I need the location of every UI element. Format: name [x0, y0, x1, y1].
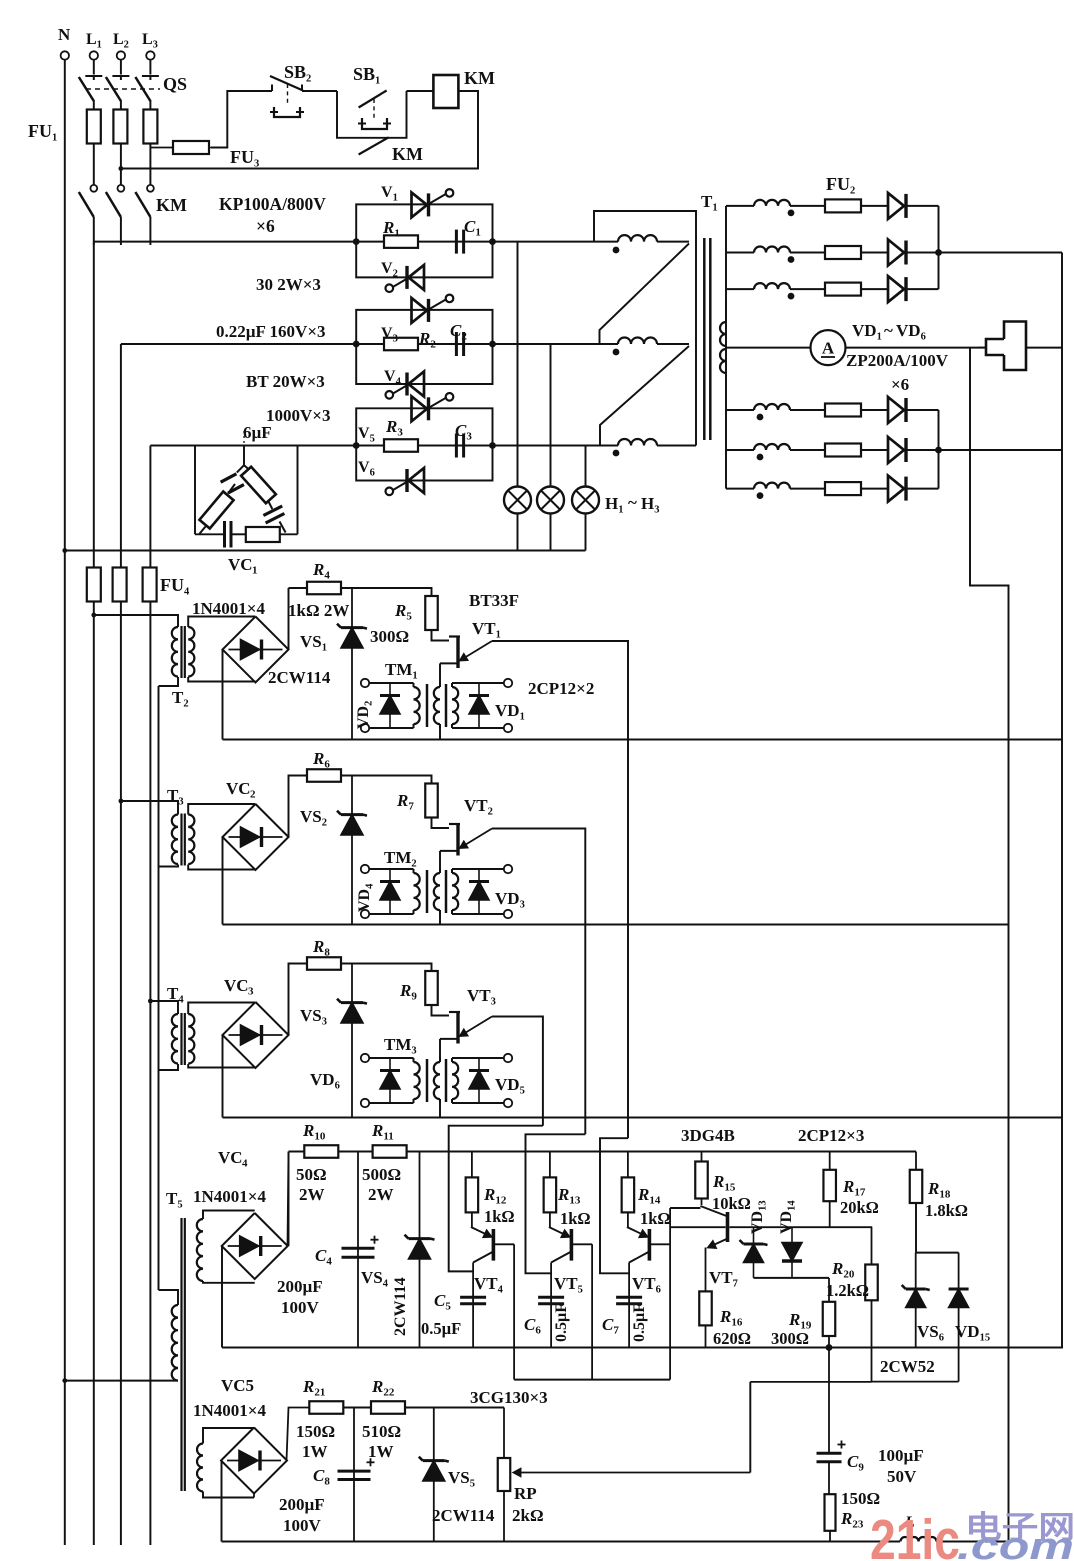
svg-text:KM: KM [156, 195, 187, 215]
UJT bar [456, 1012, 459, 1044]
winding T1 secondary [754, 200, 790, 206]
wire phase bus A [94, 241, 618, 243]
transformer T4 [150, 1001, 178, 1014]
wire [657, 241, 689, 243]
wire [253, 1494, 255, 1498]
resistor R11 [373, 1145, 407, 1158]
winding right [452, 1062, 458, 1099]
terminal L3 [146, 51, 154, 59]
resistor R1 [384, 235, 418, 248]
svg-text:KM: KM [464, 68, 495, 88]
terminal L2 [117, 51, 125, 59]
wire [221, 1461, 223, 1542]
svg-text:A: A [822, 339, 835, 358]
winding primary [172, 815, 178, 865]
wire rectifier row [726, 205, 754, 207]
resistor R15 [701, 1152, 703, 1162]
svg-text:2CW52: 2CW52 [880, 1357, 935, 1376]
svg-text:10kΩ: 10kΩ [712, 1194, 751, 1213]
capacitor C3 [455, 434, 458, 458]
wire [369, 682, 414, 684]
wire [452, 1057, 508, 1059]
wire bus pulse2 [223, 924, 1009, 926]
zener VS1 [351, 588, 353, 740]
svg-text:1.8kΩ: 1.8kΩ [925, 1201, 968, 1220]
svg-text:100V: 100V [283, 1516, 322, 1535]
svg-text:VC: VC [224, 976, 249, 995]
svg-text:VC: VC [228, 555, 253, 574]
wire [93, 60, 95, 75]
diode VD13 [753, 1227, 755, 1278]
wire secondary common [725, 206, 727, 489]
svg-text:.com: .com [957, 1526, 1074, 1561]
wire [432, 1005, 450, 1016]
transistor VT6 bar [648, 1229, 652, 1261]
winding T1 primary 1 [618, 235, 657, 242]
fuse FU3 [150, 147, 173, 149]
wire [120, 60, 122, 75]
wire [439, 911, 441, 925]
winding T1 secondary [754, 444, 790, 450]
svg-text:VC5: VC5 [221, 1376, 254, 1395]
wire rectifier row [726, 288, 754, 290]
svg-text:200µF: 200µF [277, 1277, 323, 1296]
UJT emitter [460, 829, 492, 849]
resistor rc bottom [246, 527, 280, 542]
wire delta diag 1 [600, 244, 690, 345]
winding right [452, 873, 458, 910]
wire firing link 1 [449, 1126, 543, 1272]
winding left [413, 683, 415, 687]
svg-text:N: N [58, 25, 71, 44]
capacitor C9 [828, 1348, 830, 1453]
wire base sync [670, 1207, 700, 1209]
fuse [825, 404, 861, 417]
fuse [825, 444, 861, 457]
wire phase bus B [121, 343, 618, 345]
wire [289, 587, 308, 589]
svg-text:0.5µF: 0.5µF [553, 1303, 570, 1342]
thyristor V1 [412, 192, 428, 217]
svg-text:6µF: 6µF [243, 423, 272, 442]
wire [222, 837, 224, 925]
zener VS4 [419, 1152, 421, 1348]
rectifier VC5 [221, 1428, 287, 1494]
wire rc box [194, 446, 196, 535]
svg-text:21ic: 21ic [870, 1508, 960, 1561]
UJT emitter [460, 641, 492, 661]
wire [407, 90, 434, 92]
rectifier VC2 [223, 804, 289, 870]
core [180, 1013, 182, 1065]
core [426, 1059, 429, 1102]
svg-text:2CW114: 2CW114 [432, 1506, 495, 1525]
transistor VT6 base lead [650, 1243, 670, 1245]
wire common return [158, 686, 160, 1290]
winding primary [172, 627, 178, 677]
wire [120, 217, 122, 245]
wire [149, 446, 151, 1546]
wire [93, 217, 95, 245]
svg-text:100V: 100V [281, 1298, 320, 1317]
svg-text:50Ω: 50Ω [296, 1165, 327, 1184]
wire rc apex [243, 446, 245, 466]
svg-text:2W: 2W [368, 1185, 394, 1204]
wire base tie [514, 1379, 670, 1381]
wire [120, 344, 122, 1545]
transistor VT5 collector [551, 1252, 570, 1263]
wire [439, 851, 441, 869]
capacitor C8 [353, 1408, 355, 1542]
wire base drop [669, 1244, 671, 1379]
resistor R10 [304, 1145, 338, 1158]
resistor R17 [829, 1152, 831, 1170]
svg-text:1: 1 [252, 565, 258, 577]
winding left [413, 1058, 415, 1062]
zener VS3 [351, 964, 353, 1118]
wire [369, 868, 414, 870]
diode VD rectifier [888, 397, 904, 423]
relay coil KM [433, 75, 458, 108]
svg-text:×6: ×6 [256, 216, 275, 236]
UJT emitter [460, 1017, 492, 1037]
svg-text:0.5µF: 0.5µF [631, 1303, 648, 1342]
capacitor rc bottom [223, 521, 226, 548]
wire dc bus top [939, 252, 1063, 254]
wire [657, 343, 689, 345]
winding middle (trigger primary) [434, 1062, 440, 1099]
diode VD15 [958, 1253, 960, 1290]
transistor VT4 base lead [494, 1243, 514, 1245]
wire +rail [289, 1151, 917, 1153]
wire bus pulse1 [223, 739, 1063, 741]
wire zener pair top [916, 1252, 959, 1254]
wire rectifier row [726, 488, 754, 490]
transistor VT5 bar [570, 1229, 574, 1261]
rectifier VC4 [222, 1213, 288, 1279]
wire [439, 1100, 441, 1118]
rectifier VC1 [223, 617, 289, 683]
wire N bus [64, 60, 66, 1545]
winding T1 secondary [754, 283, 790, 289]
winding right [452, 687, 458, 724]
svg-text:0.5µF: 0.5µF [421, 1319, 461, 1338]
wire [302, 90, 337, 92]
wire [439, 725, 441, 740]
resistor R23 [825, 1494, 836, 1531]
wire phase bus C [150, 445, 618, 447]
winding T1 secondary [754, 483, 790, 489]
diode VD1 [478, 683, 480, 728]
wire bottom rail [222, 1541, 901, 1543]
wire [341, 588, 432, 596]
wire [492, 1017, 543, 1126]
lamp H [537, 487, 564, 514]
diode VD2 [389, 683, 391, 728]
UJT bar [456, 824, 459, 856]
svg-text:2W: 2W [299, 1185, 325, 1204]
transformer T3 [121, 801, 178, 815]
core [180, 626, 182, 678]
capacitor C6 [538, 1296, 564, 1299]
wire rectifier row [726, 252, 754, 254]
diode VD rectifier [888, 276, 904, 302]
svg-text:0.22µF 160V×3: 0.22µF 160V×3 [216, 322, 326, 341]
wire sense drop [970, 348, 1009, 1542]
wire [452, 868, 508, 870]
resistor R20 [871, 1227, 873, 1264]
svg-text:20kΩ: 20kΩ [840, 1198, 879, 1217]
pushbutton SB1 [359, 91, 387, 108]
svg-text:1kΩ: 1kΩ [640, 1209, 671, 1228]
terminal N [61, 51, 69, 59]
winding T1 secondary 4 [725, 299, 727, 322]
thyristor V3 [412, 298, 428, 323]
wire [492, 641, 628, 1138]
fuse FU1 [87, 110, 101, 144]
wire group frame [356, 310, 492, 344]
fuse FU2 [825, 199, 861, 212]
resistor R5 [425, 596, 438, 630]
svg-text:620Ω: 620Ω [713, 1329, 751, 1348]
thyristor V6 [409, 468, 425, 493]
wire group frame [356, 408, 492, 445]
box 2CW52 [872, 1381, 959, 1383]
wire base drop [513, 1244, 515, 1379]
diode VD14 [791, 1227, 793, 1278]
transistor VT4 collector [473, 1252, 492, 1263]
transistor VT6 emitter arrow [627, 1227, 648, 1237]
svg-text:KP100A/800V: KP100A/800V [219, 194, 326, 214]
diode VD rectifier [888, 193, 904, 219]
fuse FU4 [87, 568, 101, 602]
svg-text:3CG130×3: 3CG130×3 [470, 1388, 548, 1407]
svg-text:1W: 1W [302, 1442, 328, 1461]
wire delta top rail [594, 211, 696, 446]
resistor R3 [384, 439, 418, 452]
transformer T5 primary [159, 1290, 179, 1305]
svg-text:QS: QS [163, 74, 187, 94]
svg-text:~: ~ [628, 493, 637, 512]
pulse transformer output terminals left [361, 865, 369, 873]
core [426, 870, 429, 913]
wire [705, 1248, 707, 1292]
zener VS6 [915, 1253, 917, 1290]
wire control feed [211, 91, 272, 148]
wire [287, 1408, 310, 1461]
svg-text:2kΩ: 2kΩ [512, 1506, 544, 1525]
wire [432, 818, 450, 829]
wire [222, 650, 224, 740]
core T1 [703, 238, 706, 440]
wire group frame [356, 204, 492, 241]
pushbutton SB2 [271, 85, 273, 92]
resistor R22 [371, 1401, 405, 1414]
wire collector [472, 1263, 474, 1348]
inductor L [901, 1537, 937, 1541]
fuse [825, 283, 861, 296]
svg-text:~: ~ [884, 321, 893, 340]
wire vd string top [730, 1226, 873, 1228]
diode VD rectifier [888, 437, 904, 463]
rc left branch [237, 465, 244, 472]
svg-text:VC: VC [226, 779, 251, 798]
winding left [413, 869, 415, 873]
resistor R4 [307, 582, 341, 595]
wire lamp feeds [517, 242, 519, 487]
transformer T5 upper secondary [197, 1219, 203, 1281]
zener VS5 [433, 1408, 435, 1542]
wire [288, 1152, 289, 1247]
svg-text:300Ω: 300Ω [370, 627, 409, 646]
pulse output terminals right [504, 865, 512, 873]
wire firing link 2 [526, 1134, 586, 1273]
wire [149, 60, 151, 75]
svg-text:100µF: 100µF [878, 1446, 924, 1465]
svg-text:500Ω: 500Ω [362, 1165, 401, 1184]
transformer T5 lower secondary [197, 1444, 203, 1492]
winding primary [172, 1014, 178, 1064]
wire right vertical [1061, 253, 1063, 1348]
winding middle (trigger primary) [434, 687, 440, 724]
svg-text:ZP200A/100V: ZP200A/100V [846, 351, 949, 370]
svg-text:150Ω: 150Ω [296, 1422, 335, 1441]
transformer T2 [94, 615, 178, 627]
wire [440, 850, 458, 852]
wire ground rail [222, 1347, 1063, 1349]
svg-text:1N4001×4: 1N4001×4 [193, 1401, 266, 1420]
resistor R21 [309, 1401, 343, 1414]
ammeter A [726, 347, 811, 349]
resistor R7 [425, 784, 438, 818]
contact KM auxiliary [359, 137, 389, 154]
wire [343, 1407, 371, 1409]
wire lamp return [65, 550, 586, 552]
resistor R2 [384, 338, 418, 351]
transistor VT5 base lead [572, 1243, 592, 1245]
svg-text:2: 2 [250, 789, 256, 801]
diode VD5 [478, 1058, 480, 1103]
winding T1 primary 2 [618, 338, 657, 344]
pulse output terminals right [504, 1054, 512, 1062]
capacitor C2 [455, 332, 458, 356]
svg-text:1N4001×4: 1N4001×4 [193, 1187, 266, 1206]
wire [369, 1057, 414, 1059]
lamp H [572, 487, 599, 514]
capacitor C5 [460, 1296, 486, 1299]
wire [405, 1407, 504, 1409]
transistor VT5 emitter arrow [549, 1227, 570, 1237]
terminal L1 [90, 51, 98, 59]
wire [1026, 347, 1062, 349]
winding T1 secondary [754, 247, 790, 253]
svg-text:1kΩ: 1kΩ [560, 1209, 591, 1228]
svg-text:2CP12×2: 2CP12×2 [528, 679, 594, 698]
svg-text:2CP12×3: 2CP12×3 [798, 1126, 864, 1145]
wire delta diag 2 [600, 346, 689, 446]
wire rectifier row [726, 409, 754, 411]
svg-text:VC: VC [218, 1148, 243, 1167]
zener VS2 [351, 776, 353, 925]
wire wiper link [749, 1382, 751, 1473]
wire bus pulse3 [223, 1117, 1063, 1119]
wire [288, 588, 290, 650]
wire [452, 682, 508, 684]
resistor R9 [425, 971, 438, 1005]
wire [222, 1035, 224, 1118]
wire base drop [591, 1244, 593, 1379]
transistor VT4 emitter arrow [471, 1227, 492, 1237]
wire [289, 964, 308, 1036]
svg-text:30 2W×3: 30 2W×3 [256, 275, 321, 294]
rectifier VC3 [223, 1002, 289, 1068]
thyristor V4 [409, 372, 425, 397]
transistor VT4 bar [492, 1229, 496, 1261]
svg-text:KM: KM [392, 144, 423, 164]
wire firing link 3 [600, 1138, 629, 1273]
svg-text:1.2kΩ: 1.2kΩ [826, 1281, 869, 1300]
wire rectifier row [726, 449, 754, 451]
winding middle (trigger primary) [434, 873, 440, 910]
resistor R16 [699, 1291, 712, 1325]
UJT bar [456, 636, 459, 668]
diode VD rectifier [888, 476, 904, 502]
load shunt [1004, 322, 1026, 371]
svg-text:300Ω: 300Ω [771, 1329, 809, 1348]
pulse transformer output terminals left [361, 1054, 369, 1062]
winding secondary [188, 1014, 194, 1064]
wire [341, 776, 432, 784]
wire VT7 base [670, 1226, 725, 1228]
svg-text:BT33F: BT33F [469, 591, 519, 610]
resistor R12 [471, 1152, 473, 1178]
rc right branch [244, 465, 249, 469]
wire collector [628, 1263, 630, 1348]
winding T1 secondary [754, 404, 790, 410]
capacitor C7 [616, 1296, 642, 1299]
core T5 [180, 1218, 182, 1491]
wire vd string bottom [754, 1277, 830, 1279]
fuse [825, 482, 861, 495]
wire [915, 1203, 917, 1253]
svg-text:50V: 50V [887, 1467, 917, 1486]
diode VD4 [389, 869, 391, 914]
svg-text:1kΩ: 1kΩ [484, 1207, 515, 1226]
wire [122, 91, 478, 169]
wire rc bottom [195, 533, 224, 535]
thyristor V5 [412, 396, 428, 421]
svg-text:2CW114: 2CW114 [268, 668, 331, 687]
wire [439, 1039, 441, 1058]
thyristor V2 [409, 265, 425, 290]
diode VD rectifier [888, 240, 904, 266]
svg-text:1N4001×4: 1N4001×4 [192, 599, 265, 618]
watermark [870, 1508, 1074, 1561]
wire SB1 branch [337, 91, 407, 138]
svg-text:3DG4B: 3DG4B [681, 1126, 735, 1145]
winding secondary [188, 627, 194, 677]
svg-text:RP: RP [514, 1484, 537, 1503]
resistor R13 [549, 1152, 551, 1178]
diode VD6 [389, 1058, 391, 1103]
resistor R19 [828, 1278, 830, 1302]
core [426, 684, 429, 727]
wire [221, 1246, 223, 1348]
transistor VT7 [700, 1206, 726, 1216]
capacitor C4 [357, 1152, 359, 1348]
svg-text:150Ω: 150Ω [841, 1489, 880, 1508]
wire [440, 1038, 458, 1040]
